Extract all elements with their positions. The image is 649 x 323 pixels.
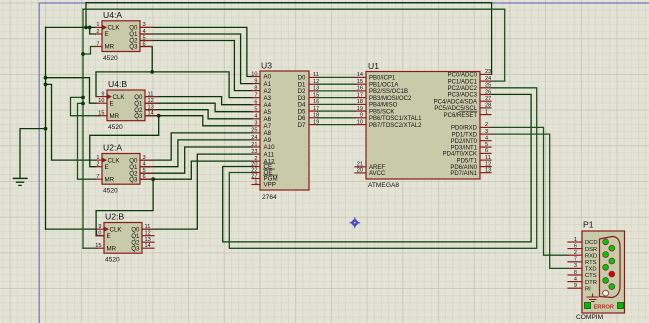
U3 pin 6 A4: [252, 104, 260, 106]
svg-text:9: 9: [360, 113, 363, 119]
P1 DB9 pin LED 8: [609, 284, 615, 290]
svg-text:A3: A3: [264, 95, 272, 102]
svg-text:2: 2: [96, 162, 99, 168]
svg-text:1: 1: [574, 237, 577, 243]
svg-text:7: 7: [574, 257, 577, 263]
wire: U3 D2 to U1 PB2: [317, 90, 355, 92]
svg-text:21: 21: [357, 162, 363, 168]
svg-text:A0: A0: [264, 74, 272, 81]
svg-text:7: 7: [96, 41, 99, 47]
svg-text:4520: 4520: [105, 257, 120, 264]
counter U2:A (4520): [102, 154, 140, 185]
EPROM U3 (2764): [260, 71, 309, 190]
svg-text:18: 18: [313, 113, 319, 119]
svg-text:PD6/AIN0: PD6/AIN0: [450, 165, 477, 171]
junction at (83,97.4): [81, 96, 85, 100]
wire: net PC1 top bus: [83, 8, 505, 10]
svg-text:26: 26: [485, 89, 491, 95]
svg-text:PD7/AIN1: PD7/AIN1: [450, 171, 477, 177]
wire: U4:A Q3 cascade down: [140, 47, 152, 72]
svg-text:TXD: TXD: [585, 267, 597, 273]
svg-text:PB1/OC1A: PB1/OC1A: [369, 82, 398, 88]
svg-text:9: 9: [254, 78, 257, 84]
svg-text:6: 6: [254, 100, 257, 106]
U2:B pin 12 Q1: [142, 235, 154, 237]
U4:B pin 14 Q3: [145, 115, 157, 117]
svg-text:CLK: CLK: [108, 25, 121, 32]
U1 pin 21 AREF: [355, 166, 366, 168]
U1 pin 9 PB6/TOSC1/XTAL1: [355, 117, 366, 119]
U1 pin 13 PD7/AIN1: [480, 172, 491, 174]
U3 pin 9 A1: [252, 83, 260, 85]
P1 DB9 pin LED 9: [603, 290, 609, 296]
svg-text:2764: 2764: [262, 194, 277, 201]
counter U2:B (4520): [104, 223, 142, 254]
U3 pin 3 A7: [252, 125, 260, 127]
U3 pin 7 A3: [252, 97, 260, 99]
U2:A pin 1 CLK: [96, 159, 103, 161]
wire: left clock rail (vertical): [45, 27, 47, 229]
svg-text:PC1/ADC1: PC1/ADC1: [448, 79, 478, 85]
P1 ERROR indicator: [585, 303, 591, 309]
svg-text:11: 11: [485, 155, 491, 161]
U4:B pin 9 CLK: [97, 96, 108, 98]
svg-text:D7: D7: [298, 122, 306, 129]
svg-text:24: 24: [251, 135, 257, 141]
svg-text:P1: P1: [583, 220, 594, 230]
svg-text:6: 6: [574, 243, 577, 249]
wire: U4:A E hook: [90, 27, 96, 34]
U3 pin 8 A2: [252, 90, 260, 92]
U3 pin 23 A11: [252, 153, 260, 155]
P1 DB9 pin LED 6: [609, 271, 615, 277]
U2:B pin 11 Q0: [142, 228, 154, 230]
wire: PD1/TXD to P1 TXD: [491, 134, 568, 268]
P1 DB9 pin LED 1: [603, 239, 609, 245]
svg-text:2: 2: [574, 250, 577, 256]
U1 pin 6 PD4/T0/XCK: [480, 152, 491, 154]
svg-text:DCD: DCD: [585, 240, 598, 246]
wire: to U2:B CLK: [46, 228, 97, 230]
svg-text:25: 25: [251, 128, 257, 134]
svg-text:2: 2: [96, 29, 99, 35]
wire: U3 D6 to U1 PB6: [317, 117, 355, 119]
svg-text:MR: MR: [105, 44, 115, 51]
svg-text:23: 23: [251, 149, 257, 155]
svg-text:DTR: DTR: [585, 280, 597, 286]
wire: U4:B Q2 to U3 A6: [145, 110, 252, 119]
svg-text:DSR: DSR: [585, 247, 597, 253]
svg-text:A1: A1: [264, 81, 272, 88]
U1 pin 5 PD3/INT1: [480, 146, 491, 148]
svg-text:11: 11: [313, 72, 319, 78]
U3 pin 20 CE: [252, 166, 260, 168]
svg-text:VPP: VPP: [264, 182, 276, 189]
svg-text:U3: U3: [261, 61, 272, 71]
wire: net CE - U3 pin20 to U1 PC3: [223, 94, 531, 242]
svg-text:10: 10: [251, 71, 257, 77]
wire: U3 D7 to U1 PB7: [317, 124, 355, 126]
wire: cascade to U4:B CLK: [96, 72, 152, 97]
U4:A pin 2 E: [96, 33, 103, 35]
wire: cascade bus to U3 A3: [152, 72, 252, 98]
svg-text:PD0/RXD: PD0/RXD: [451, 126, 478, 132]
svg-text:PD5/T1: PD5/T1: [457, 158, 478, 164]
junction at (83,103.4): [81, 102, 85, 106]
svg-text:7: 7: [96, 174, 99, 180]
P1 DB9 pin LED 7: [603, 278, 609, 284]
svg-text:20: 20: [357, 168, 363, 174]
svg-text:14: 14: [148, 111, 154, 117]
wire: net PC0 top bus: [86, 2, 492, 4]
U2:A pin 6 Q3: [140, 178, 152, 180]
svg-text:4520: 4520: [103, 55, 118, 62]
svg-text:12: 12: [148, 98, 154, 104]
svg-text:28: 28: [485, 103, 491, 109]
P1 DB9 shell: [600, 237, 621, 298]
U3 pin 1 VPP: [252, 184, 260, 186]
svg-text:3: 3: [143, 155, 146, 161]
svg-text:13: 13: [485, 168, 491, 174]
U4:A pin 4 Q1: [140, 33, 152, 35]
svg-text:CTS: CTS: [585, 273, 597, 279]
wire: branch to U2:A CLK: [46, 84, 96, 160]
U1 pin 20 AVCC: [355, 172, 366, 174]
wire: U3 D1 to U1 PB1: [317, 83, 355, 85]
U1 pin 26 PC3/ADC3: [480, 94, 491, 96]
svg-text:15: 15: [98, 111, 104, 117]
svg-text:9: 9: [98, 224, 101, 230]
U2:A pin 7 MR: [96, 178, 103, 180]
svg-text:Q3: Q3: [131, 245, 140, 252]
wire: U4:A CLK from left rail: [46, 26, 96, 28]
svg-text:A11: A11: [264, 151, 275, 158]
U4:B pin 10 E: [97, 102, 108, 104]
wire: PD0/RXD to P1 RXD: [491, 127, 568, 255]
svg-text:MR: MR: [110, 113, 120, 120]
U1 pin 18 PB4/MISO: [355, 103, 366, 105]
U1 pin 19 PB5/SCK: [355, 110, 366, 112]
P1 DB9 pin LED 2: [609, 245, 615, 251]
U3 pin 13 D2: [309, 90, 317, 92]
svg-text:MR: MR: [105, 176, 115, 183]
wire: U4:B Q3 cascade to U2:A E: [90, 116, 159, 167]
U2:A pin 5 Q2: [140, 172, 152, 174]
svg-text:17: 17: [357, 92, 363, 98]
svg-text:Q3: Q3: [129, 44, 138, 51]
U3 pin 18 D6: [309, 117, 317, 119]
svg-text:4: 4: [143, 162, 146, 168]
svg-text:PC3/ADC3: PC3/ADC3: [448, 93, 478, 99]
svg-text:25: 25: [485, 83, 491, 89]
U1 pin 15 PB1/OC1A: [355, 83, 366, 85]
wire: U2:A Q3 cascade to U2:B E: [96, 179, 153, 236]
U4:B pin 12 Q1: [145, 102, 157, 104]
counter U4:A (4520): [102, 21, 140, 52]
svg-text:27: 27: [485, 96, 491, 102]
svg-text:A10: A10: [264, 144, 276, 151]
wire: U4:A Q2 to U3 A2: [140, 41, 252, 91]
svg-text:4: 4: [485, 136, 488, 142]
svg-text:E: E: [105, 31, 109, 38]
U1 pin 2 PD0/RXD: [480, 126, 491, 128]
U2:B pin 14 Q3: [142, 247, 154, 249]
svg-text:24: 24: [485, 76, 491, 82]
U2:B pin 13 Q2: [142, 241, 154, 243]
wire: U4:A Q1 to U3 A1: [140, 34, 252, 84]
svg-text:1: 1: [96, 155, 99, 161]
wire: U2:B Q0 to U3 A11: [142, 154, 252, 229]
wire: branch to U4:B E: [46, 78, 97, 104]
wire: PC0 drop to U1 pin 23: [491, 3, 493, 75]
wire: U3 D3 to U1 PB3: [317, 97, 355, 99]
svg-text:6: 6: [143, 174, 146, 180]
svg-text:15: 15: [313, 92, 319, 98]
wire: U3 D4 to U1 PB4: [317, 103, 355, 105]
wire: U4:B Q0 to U3 A4: [145, 97, 252, 105]
wire: reset rail (vertical, green): [82, 9, 84, 248]
svg-text:3: 3: [143, 22, 146, 28]
U3 pin 25 A8: [252, 132, 260, 134]
wire: U4:B Q3 to U3 A7: [145, 116, 252, 126]
U4:A pin 5 Q2: [140, 40, 152, 42]
svg-text:AREF: AREF: [369, 165, 385, 171]
svg-text:PB0/ICP1: PB0/ICP1: [369, 76, 396, 82]
U1 pin 10 PB7/TOSC2/XTAL2: [355, 124, 366, 126]
P1 DB9 pin LED 3: [603, 252, 609, 258]
wire: U2:A Q0 to U3 A8: [140, 133, 252, 160]
P1 pin 8 CTS: [568, 274, 582, 276]
svg-text:13: 13: [313, 86, 319, 92]
svg-text:4520: 4520: [103, 188, 118, 195]
svg-text:8: 8: [254, 85, 257, 91]
svg-text:PC0/ADC0: PC0/ADC0: [448, 73, 478, 79]
junction at (45.5,84.4): [44, 83, 48, 87]
junction at (86,27.4): [84, 26, 88, 30]
P1 pin 6 DSR: [568, 248, 582, 250]
P1 pin 4 DTR: [568, 281, 582, 283]
U1 pin 25 PC2/ADC2: [480, 87, 491, 89]
svg-text:PD2/INT0: PD2/INT0: [451, 139, 478, 145]
svg-text:3: 3: [254, 121, 257, 127]
U4:A pin 1 CLK: [96, 26, 103, 28]
svg-text:PD1/TXD: PD1/TXD: [452, 132, 478, 138]
svg-text:PC4/ADC4/SDA: PC4/ADC4/SDA: [434, 99, 477, 105]
sheet border (blue): [39, 2, 649, 4]
junction at (153.1,179.2): [151, 177, 155, 181]
svg-text:Q3: Q3: [134, 113, 143, 120]
P1 pin 9 RI: [568, 287, 582, 289]
wire: U4:A Q0 to U3 A0: [140, 27, 252, 76]
svg-text:15: 15: [95, 243, 101, 249]
svg-text:11: 11: [148, 91, 154, 97]
svg-text:19: 19: [357, 106, 363, 112]
svg-text:10: 10: [98, 98, 104, 104]
svg-text:A4: A4: [264, 102, 272, 109]
svg-text:U4:A: U4:A: [103, 10, 122, 20]
svg-text:PB7/TOSC2/XTAL2: PB7/TOSC2/XTAL2: [369, 123, 422, 129]
svg-text:A6: A6: [264, 116, 272, 123]
wire: branch to ground: [20, 129, 46, 179]
svg-text:4520: 4520: [108, 124, 123, 131]
U3 pin 17 D5: [309, 110, 317, 112]
U2:B pin 9 CLK: [96, 228, 104, 230]
svg-text:8: 8: [574, 270, 577, 276]
wire: to U2:B MR: [83, 247, 97, 249]
junction at (83,54): [81, 52, 85, 56]
wire: branch to U2:A MR: [78, 103, 96, 179]
U3 pin 4 A6: [252, 118, 260, 120]
svg-text:PB6/TOSC1/XTAL1: PB6/TOSC1/XTAL1: [369, 116, 422, 122]
svg-text:15: 15: [357, 79, 363, 85]
svg-text:18: 18: [357, 99, 363, 105]
svg-text:19: 19: [313, 119, 319, 125]
U1 pin 23 PC0/ADC0: [480, 73, 491, 75]
svg-text:A7: A7: [264, 123, 272, 130]
svg-text:A9: A9: [264, 137, 272, 144]
svg-text:6: 6: [143, 41, 146, 47]
svg-text:CLK: CLK: [113, 94, 126, 101]
wire: net OE - U3 pin22 to U1 PC2: [229, 88, 536, 249]
U3 pin 21 A10: [252, 146, 260, 148]
svg-text:1: 1: [96, 22, 99, 28]
U2:A pin 3 Q0: [140, 159, 152, 161]
wire: U2:A Q2 to U3 A10: [140, 147, 252, 173]
svg-text:ERROR: ERROR: [594, 304, 614, 310]
U2:B pin 15 MR: [96, 247, 104, 249]
U1 pin 24 PC1/ADC1: [480, 80, 491, 82]
svg-text:PB2/SS/OC1B: PB2/SS/OC1B: [369, 89, 408, 95]
svg-text:3: 3: [485, 129, 488, 135]
svg-text:14: 14: [357, 72, 363, 78]
U3 pin 16 D4: [309, 103, 317, 105]
U4:A pin 6 Q3: [140, 46, 152, 48]
U3 pin 2 A12: [252, 160, 260, 162]
svg-text:PC2/ADC2: PC2/ADC2: [448, 86, 478, 92]
wire: U2:A Q1 to U3 A9: [140, 140, 252, 167]
P1 DB9 pin LED 4: [609, 258, 615, 264]
origin cursor marker: [350, 218, 359, 227]
wire: U3 D5 to U1 PB5: [317, 110, 355, 112]
svg-text:16: 16: [357, 86, 363, 92]
U4:B pin 15 MR: [97, 115, 108, 117]
U1 pin 28 PC5/ADC5/SCL: [480, 107, 491, 109]
svg-text:6: 6: [485, 148, 488, 154]
svg-text:5: 5: [254, 107, 257, 113]
svg-text:9: 9: [574, 283, 577, 289]
U3 pin 12 D1: [309, 83, 317, 85]
P1 pin 2 RXD: [568, 254, 582, 256]
U1 pin 11 PD5/T1: [480, 159, 491, 161]
svg-text:U1: U1: [368, 61, 379, 71]
U3 pin 19 D7: [309, 124, 317, 126]
U1 pin 14 PB0/ICP1: [355, 76, 366, 78]
svg-text:12: 12: [145, 231, 151, 237]
junction at (152.2,71.9): [150, 70, 154, 74]
svg-text:PD4/T0/XCK: PD4/T0/XCK: [443, 152, 477, 158]
U1 pin 17 PB3/MOSI/OC2: [355, 97, 366, 99]
svg-text:U4:B: U4:B: [108, 79, 127, 89]
svg-text:7: 7: [254, 92, 257, 98]
connector P1 (COMPIM): [582, 231, 625, 313]
U4:A pin 7 MR: [96, 46, 103, 48]
svg-text:PC6/RESET: PC6/RESET: [444, 113, 478, 119]
U4:B pin 11 Q0: [145, 96, 157, 98]
svg-text:PB3/MOSI/OC2: PB3/MOSI/OC2: [369, 96, 412, 102]
svg-text:RTS: RTS: [585, 260, 597, 266]
svg-text:12: 12: [485, 161, 491, 167]
counter U4:B (4520): [107, 90, 145, 121]
svg-text:14: 14: [145, 243, 151, 249]
wire: U2:A Q3 to U3 A12: [140, 161, 252, 179]
U1 pin 16 PB2/SS/OC1B: [355, 90, 366, 92]
U4:A pin 3 Q0: [140, 26, 152, 28]
P1 pin 1 DCD: [568, 241, 582, 243]
svg-text:COMPIM: COMPIM: [576, 314, 603, 321]
junction at (45.5,77.7): [44, 76, 48, 80]
svg-text:5: 5: [485, 142, 488, 148]
svg-text:PD3/INT1: PD3/INT1: [451, 145, 478, 151]
svg-text:CLK: CLK: [110, 226, 123, 233]
U3 pin 5 A5: [252, 111, 260, 113]
svg-text:MR: MR: [107, 245, 117, 252]
svg-text:4: 4: [143, 29, 146, 35]
svg-text:Q3: Q3: [129, 176, 138, 183]
svg-text:E: E: [107, 233, 111, 240]
wire: riser to U4:A CLK: [85, 3, 87, 28]
U2:A pin 2 E: [96, 166, 103, 168]
svg-text:A8: A8: [264, 130, 272, 137]
svg-text:1: 1: [254, 179, 257, 185]
U3 pin 11 D0: [309, 76, 317, 78]
ground: [14, 177, 28, 179]
P1 pin 7 RTS: [568, 261, 582, 263]
U1 pin 1 PC6/RESET: [480, 114, 491, 116]
svg-text:ATMEGA8: ATMEGA8: [368, 182, 399, 189]
svg-text:1: 1: [485, 109, 488, 115]
svg-text:10: 10: [357, 119, 363, 125]
U1 pin 3 PD1/TXD: [480, 133, 491, 135]
svg-text:CLK: CLK: [108, 157, 121, 164]
U2:B pin 10 E: [96, 235, 104, 237]
P1 shell ground squiggle: [587, 294, 599, 302]
svg-text:12: 12: [313, 79, 319, 85]
svg-text:U2:A: U2:A: [103, 143, 122, 153]
svg-text:23: 23: [485, 69, 491, 75]
U1 pin 4 PD2/INT0: [480, 140, 491, 142]
junction at (45.5,128.6): [44, 127, 48, 131]
svg-text:RI: RI: [585, 286, 591, 292]
U3 pin 22 OE: [252, 172, 260, 174]
svg-text:RXD: RXD: [585, 253, 597, 259]
wire: branch to U4:A MR: [83, 47, 96, 55]
svg-text:AVCC: AVCC: [369, 171, 386, 177]
svg-text:2: 2: [485, 122, 488, 128]
wire: U4:B Q1 to U3 A5: [145, 103, 252, 112]
svg-text:A2: A2: [264, 88, 272, 95]
junction at (158.7,115.7): [157, 114, 161, 118]
U3 pin 15 D3: [309, 97, 317, 99]
P1 pin 3 TXD: [568, 267, 582, 269]
P1 DB9 pin LED 5: [603, 264, 609, 270]
svg-text:PB5/SCK: PB5/SCK: [369, 109, 394, 115]
svg-text:PB4/MISO: PB4/MISO: [369, 103, 398, 109]
U3 pin 10 A0: [252, 76, 260, 78]
U4:B pin 13 Q2: [145, 109, 157, 111]
svg-text:4: 4: [574, 276, 577, 282]
svg-text:9: 9: [101, 91, 104, 97]
U3 pin 24 A9: [252, 139, 260, 141]
